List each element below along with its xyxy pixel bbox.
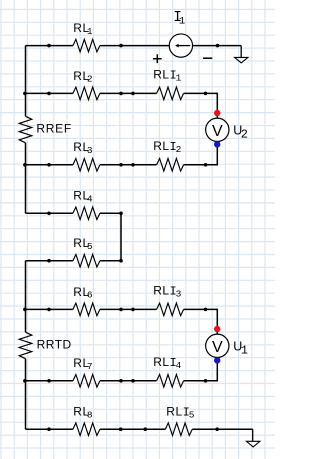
wire row5 left lead <box>26 260 73 262</box>
junction rail junction at 24.9,309.4 <box>23 308 27 312</box>
junction pin at 133,380.8 <box>131 379 135 383</box>
wire RL6 to RLI3 <box>100 308 157 310</box>
current source I1 <box>153 10 212 63</box>
resistor RRTD <box>19 332 72 359</box>
resistor RLI4 <box>153 355 183 387</box>
terminal U2 positive (red) <box>214 110 220 116</box>
wire RL2 row left lead <box>26 92 73 94</box>
wire RL3 row left lead <box>26 164 73 166</box>
wire RL7 to RLI4 <box>100 380 157 382</box>
resistor RL3 <box>73 140 100 171</box>
wire upper-left rail (above RREF) <box>25 46 27 117</box>
junction pin at 121,213.3 <box>119 212 123 216</box>
wire RLI4 to voltmeter U1 bottom <box>184 357 218 380</box>
voltmeter U2 <box>206 118 248 142</box>
junction pin at 49,260.7 <box>47 259 51 263</box>
junction pin at 121,93.4 <box>119 92 123 96</box>
wire row8 left lead <box>26 428 73 430</box>
svg-text:1: 1 <box>179 16 185 28</box>
junction pin at 49,429.2 <box>47 427 51 431</box>
junction pin at 120.7,429.2 <box>119 427 123 431</box>
wire RLI5 to ground G2 <box>192 428 252 430</box>
junction pin at 49,213.3 <box>47 212 51 216</box>
wire RL8 to RLI5 <box>100 428 165 430</box>
junction pin at 205.5,164.8 <box>204 163 208 167</box>
junction pin at 133,309.4 <box>131 308 135 312</box>
resistor RLI1 <box>153 68 183 100</box>
junction pin at 49,93.4 <box>47 92 51 96</box>
junction pin at 205.5,93.4 <box>204 92 208 96</box>
resistor RLI3 <box>153 284 183 316</box>
junction pin at 133,164.8 <box>131 163 135 167</box>
wire I1 to ground G1 <box>193 45 242 47</box>
junction rail junction at 24.9,164.8 <box>23 163 27 167</box>
junction pin at 121,164.8 <box>119 163 123 167</box>
resistor RL5 <box>73 236 100 267</box>
junction pin at 133,93.4 <box>131 92 135 96</box>
junction rail junction at 24.9,93.4 <box>23 92 27 96</box>
resistor RL1 <box>73 21 100 52</box>
junction pin at 121,380.8 <box>119 379 123 383</box>
junction row1 I1 right pin <box>216 44 220 48</box>
ground G1 <box>235 46 248 63</box>
resistor RL8 <box>73 405 100 436</box>
ground G2 <box>246 429 260 447</box>
wire lower-left rail (below RRTD) <box>25 359 27 430</box>
junction pin at 205.5,309.4 <box>204 308 208 312</box>
wire lower-left rail (above RRTD) <box>25 261 27 333</box>
terminal U1 negative (blue) <box>214 357 220 363</box>
svg-text:RRTD: RRTD <box>37 337 72 351</box>
wire RL7 row left lead <box>26 380 73 382</box>
junction pin at 49,164.8 <box>47 163 51 167</box>
svg-text:V: V <box>212 123 223 140</box>
resistor RL2 <box>73 69 100 100</box>
junction row1 RL1 right pin <box>119 44 123 48</box>
junction pin at 205.5,380.8 <box>204 379 208 383</box>
wire RLI3 to voltmeter U1 top <box>184 309 218 334</box>
wire row4 left lead <box>26 212 73 214</box>
junction pin at 145.2,429.2 <box>143 427 147 431</box>
wire RL6 row left lead <box>26 308 73 310</box>
resistor RL4 <box>73 189 100 220</box>
wire RL3 to RLI2 <box>100 164 157 166</box>
junction pin at 49,380.8 <box>47 379 51 383</box>
voltmeter U1 <box>206 334 248 358</box>
resistor RREF <box>19 116 72 143</box>
resistor RLI2 <box>153 139 183 171</box>
terminal U2 negative (blue) <box>214 141 220 147</box>
wire RLI2 to voltmeter U2 bottom <box>184 142 218 165</box>
terminal U1 positive (red) <box>214 326 220 332</box>
wire RLI1 to voltmeter U2 top <box>184 93 218 118</box>
junction pin at 121,309.4 <box>119 308 123 312</box>
svg-text:V: V <box>212 339 223 356</box>
wire RL1 to I1 <box>100 45 169 47</box>
junction pin at 49,309.4 <box>47 308 51 312</box>
resistor RL7 <box>73 356 100 387</box>
junction pin at 121,260.7 <box>119 259 123 263</box>
wire upper-left rail (below RREF) <box>25 143 27 214</box>
wire RL4 to RL5 right connector <box>100 213 121 260</box>
junction row1 rail pin <box>47 44 51 48</box>
wire row1 left lead <box>26 45 73 47</box>
resistor RLI5 <box>165 405 194 436</box>
wire RL2 to RLI1 <box>100 92 157 94</box>
resistor RL6 <box>73 285 100 316</box>
junction rail junction at 24.9,380.8 <box>23 379 27 383</box>
junction pin at 217.1,429.2 <box>215 427 219 431</box>
svg-text:RREF: RREF <box>36 122 71 136</box>
